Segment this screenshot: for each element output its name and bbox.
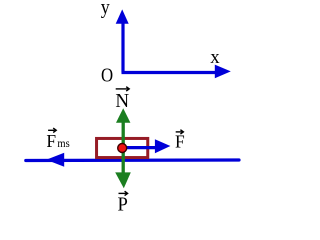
weight P arrowhead (green, down)	[115, 172, 131, 188]
svg-text:P: P	[118, 194, 128, 213]
center of mass (red dot)	[118, 144, 127, 153]
vector arrow over F_ms	[48, 128, 56, 132]
svg-text:F: F	[46, 131, 56, 151]
svg-text:ms: ms	[57, 137, 69, 150]
block (rectangle)	[97, 138, 148, 157]
y-axis	[121, 22, 124, 73]
vector arrow over N	[116, 87, 130, 91]
svg-text:O: O	[101, 64, 113, 86]
x-axis	[122, 71, 218, 74]
svg-text:x: x	[210, 47, 220, 68]
svg-text:y: y	[101, 0, 110, 19]
svg-text:F: F	[175, 132, 185, 152]
friction force arrowhead (F_ms, pointing left)	[46, 153, 64, 167]
force F arrow (blue, right)	[126, 146, 157, 149]
vector arrow over P	[119, 191, 128, 195]
svg-text:N: N	[115, 90, 129, 112]
normal force N arrow (green, up)	[122, 118, 125, 174]
ground line	[26, 158, 239, 162]
vector arrow over F	[176, 130, 184, 134]
